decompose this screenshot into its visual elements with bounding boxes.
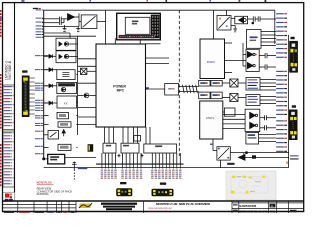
module box A4 — [58, 144, 71, 150]
power supply block U2 POWER MPC — [96, 44, 146, 127]
connector J3 pictorial — [152, 189, 174, 196]
capacitor C8 — [259, 64, 276, 69]
terminal box TB3 — [144, 144, 177, 153]
wires intermediate bus to power block pins — [78, 59, 96, 125]
ground symbol TB1-TB2 — [118, 154, 121, 157]
switch S1 — [48, 130, 65, 139]
wires clock module outputs — [259, 135, 276, 142]
wires regulator to labels — [261, 32, 276, 46]
wires component outputs to intermediate bus — [76, 44, 77, 147]
note text lines — [37, 187, 73, 196]
capacitor C10 — [260, 125, 276, 130]
title block frame — [3, 201, 304, 213]
isolator X1 — [78, 68, 96, 74]
node junction right cluster — [243, 152, 248, 159]
regulator block U8 — [247, 30, 262, 49]
op-amp U1 — [68, 14, 80, 21]
terminal box TB2 — [121, 143, 139, 153]
wires driver modules to bus — [260, 80, 276, 104]
interface box U6 — [165, 84, 179, 96]
capacitor C1 — [44, 17, 68, 21]
diode D4 — [44, 101, 57, 105]
memory module MEM2 — [211, 80, 222, 86]
capacitor C2 — [44, 19, 64, 25]
title block right grid — [232, 203, 304, 209]
module box A3 — [58, 122, 71, 127]
wire buzzer to capacitors — [248, 18, 254, 20]
earth electrode symbol — [72, 162, 87, 180]
pin E power block right — [146, 87, 150, 89]
wire bus to distribution box — [44, 158, 96, 159]
wire rail into bridge B2 — [226, 10, 228, 15]
orange marker right edge — [286, 162, 288, 164]
wire power top extension — [146, 43, 161, 45]
connector J5 label — [292, 106, 295, 108]
processor block U5 DSP1 — [200, 101, 223, 139]
connector J1 plug — [22, 76, 30, 118]
svg-text:SAMTAR306: SAMTAR306 — [239, 204, 256, 208]
wires DSP0 right pins — [225, 43, 244, 73]
amplifier U15 — [238, 155, 288, 161]
net labels right column lower — [276, 120, 287, 152]
terminal strip pins above rail — [102, 153, 180, 164]
wire ground return rail — [44, 167, 289, 169]
wires into buffer array U9 — [243, 43, 246, 66]
svg-text:www.sample-link.net: www.sample-link.net — [148, 206, 172, 210]
dashed section divider — [178, 10, 180, 156]
terminal wire code labels — [101, 170, 182, 179]
connector J2 label — [121, 182, 127, 184]
wires J1 pins to bus rows — [30, 78, 35, 114]
svg-text:MONITOR 2 LIM_NMS PLUG OVERVIE: MONITOR 2 LIM_NMS PLUG OVERVIEW — [156, 202, 210, 206]
net label near bridge B3 — [228, 163, 235, 164]
wire right distribution bus — [288, 35, 290, 168]
approval signature mark — [79, 203, 92, 208]
inline fuse F1 — [134, 127, 150, 144]
left strip rotated drawing number text — [4, 60, 12, 80]
left strip legend table upper — [3, 85, 14, 130]
wire intermediate vertical bus — [77, 36, 79, 135]
net label top left corner — [33, 8, 41, 9]
transistor array Q3 Q4 — [56, 51, 76, 63]
connector J1 label — [23, 71, 28, 73]
wire rows to transistor bank — [44, 33, 96, 38]
monitor M1 pictorial — [117, 13, 161, 40]
connector J4 label — [291, 37, 294, 39]
wires rows to boxes mid-left — [44, 56, 49, 148]
capacitor C5 — [253, 16, 258, 21]
svg-text:9/6/7/8DE-B: 9/6/7/8DE-B — [8, 60, 12, 80]
buffer array U12 — [245, 109, 260, 131]
wire DSP1 to bridge B3 — [213, 139, 217, 151]
wire power to interface box — [146, 88, 165, 90]
wire power aux output A — [146, 57, 170, 59]
wire terminal strip rail — [96, 163, 184, 165]
capacitor C4 electrolytic — [88, 144, 94, 152]
wire monitor pedestal — [115, 38, 140, 44]
wire harness interface to DSP with crossing ticks — [179, 85, 199, 93]
wire right cluster drop — [274, 10, 276, 44]
wire rectifier to power block — [97, 10, 106, 44]
svg-text:A: A — [271, 204, 273, 208]
memory module MEM1 — [199, 80, 210, 86]
svg-text:DSP1: DSP1 — [206, 116, 214, 120]
rectifier bridge B1 — [81, 15, 97, 29]
transistor array Q1 Q2 — [56, 38, 76, 50]
wire power aux output B — [146, 63, 170, 65]
svg-text:MPC: MPC — [117, 89, 125, 93]
registration marks top edge — [22, 0, 267, 2]
node junction bus to ground rail — [43, 158, 45, 160]
module box A1 — [57, 96, 77, 108]
ground symbol bridge B2 — [231, 26, 237, 33]
diode D1 — [44, 55, 56, 59]
inline filter F2 — [210, 144, 256, 159]
terminal strip pins below rail — [102, 164, 180, 169]
capacitor C9 — [260, 115, 276, 120]
net labels right edge bottom pair — [290, 155, 299, 159]
node junction capacitor branch — [252, 22, 254, 24]
memory module MEM4 — [211, 92, 222, 99]
wire op-amp output to rectifier — [44, 13, 81, 26]
distribution box PD1 — [48, 154, 65, 164]
buffer array U9 — [246, 49, 259, 71]
line driver X2 — [222, 79, 246, 87]
connector J4 pictorial — [289, 41, 298, 73]
ground symbol TB2-TB3 — [141, 154, 144, 157]
company name block — [101, 203, 137, 211]
diode D3 — [44, 84, 57, 88]
document number row 2 — [233, 210, 297, 214]
clock module U14 — [246, 133, 259, 145]
monitor M1 terminal strip with pin dots — [119, 35, 155, 38]
ground symbol near C2 — [63, 25, 67, 32]
driver module DR1 — [246, 78, 260, 91]
wire left vertical bus — [43, 10, 45, 159]
rectifier bridge B3 — [217, 147, 230, 160]
net labels right column upper — [276, 13, 287, 58]
driver module DR2 — [246, 95, 260, 106]
svg-text:DSP0: DSP0 — [207, 60, 215, 64]
wires DSP1 to buffer array U12 — [223, 115, 245, 129]
connector J3 label — [160, 183, 166, 185]
document number row 1 — [233, 204, 276, 208]
board photo inset — [226, 171, 276, 200]
net labels mid-left rows — [35, 55, 43, 154]
wire rail to DSP0 — [212, 10, 214, 39]
note heading red underlined — [37, 180, 54, 184]
wire bridge B3 to ground rail — [220, 160, 222, 168]
filter box FL1 — [57, 70, 75, 80]
buzzer LS1 — [231, 16, 248, 24]
company logo — [3, 192, 15, 201]
line driver X3 — [222, 94, 246, 102]
module box A2 — [57, 112, 69, 118]
wires power block bottom pins — [105, 127, 138, 143]
capacitor C7 — [259, 53, 276, 58]
sync buffer box U11 — [223, 108, 235, 116]
terminal box TB1 — [103, 143, 116, 153]
diode D2 — [44, 68, 57, 72]
svg-text:XX: XX — [64, 102, 68, 106]
net labels input rows top-left — [36, 9, 44, 37]
svg-text:RUNNING: RUNNING — [37, 192, 49, 196]
left strip legend table lower — [3, 131, 14, 187]
net labels right column middle — [276, 71, 287, 115]
transistor Q5 — [78, 93, 96, 98]
relay box K1 — [57, 82, 77, 93]
connector J2 pictorial — [116, 188, 132, 196]
ground symbol near U1 — [76, 27, 80, 32]
svg-text:NOTE PLUG: NOTE PLUG — [37, 180, 52, 184]
connector J5 pictorial — [289, 110, 298, 141]
rectifier bridge B2 — [217, 16, 231, 31]
fold marks left edge — [0, 10, 2, 186]
memory module MEM3 — [199, 92, 210, 99]
wire top power rail — [44, 9, 275, 11]
monitor M1 rear pin panel — [151, 15, 160, 39]
wire input stubs — [42, 19, 44, 37]
capacitor C6 — [258, 16, 276, 21]
revision row entries — [4, 212, 75, 213]
wire bridge B3 output — [230, 153, 288, 158]
svg-text:GMM-2AD-D2.16.001 - D11: GMM-2AD-D2.16.001 - D11 — [239, 210, 275, 214]
processor block U4 DSP0 — [200, 39, 225, 79]
